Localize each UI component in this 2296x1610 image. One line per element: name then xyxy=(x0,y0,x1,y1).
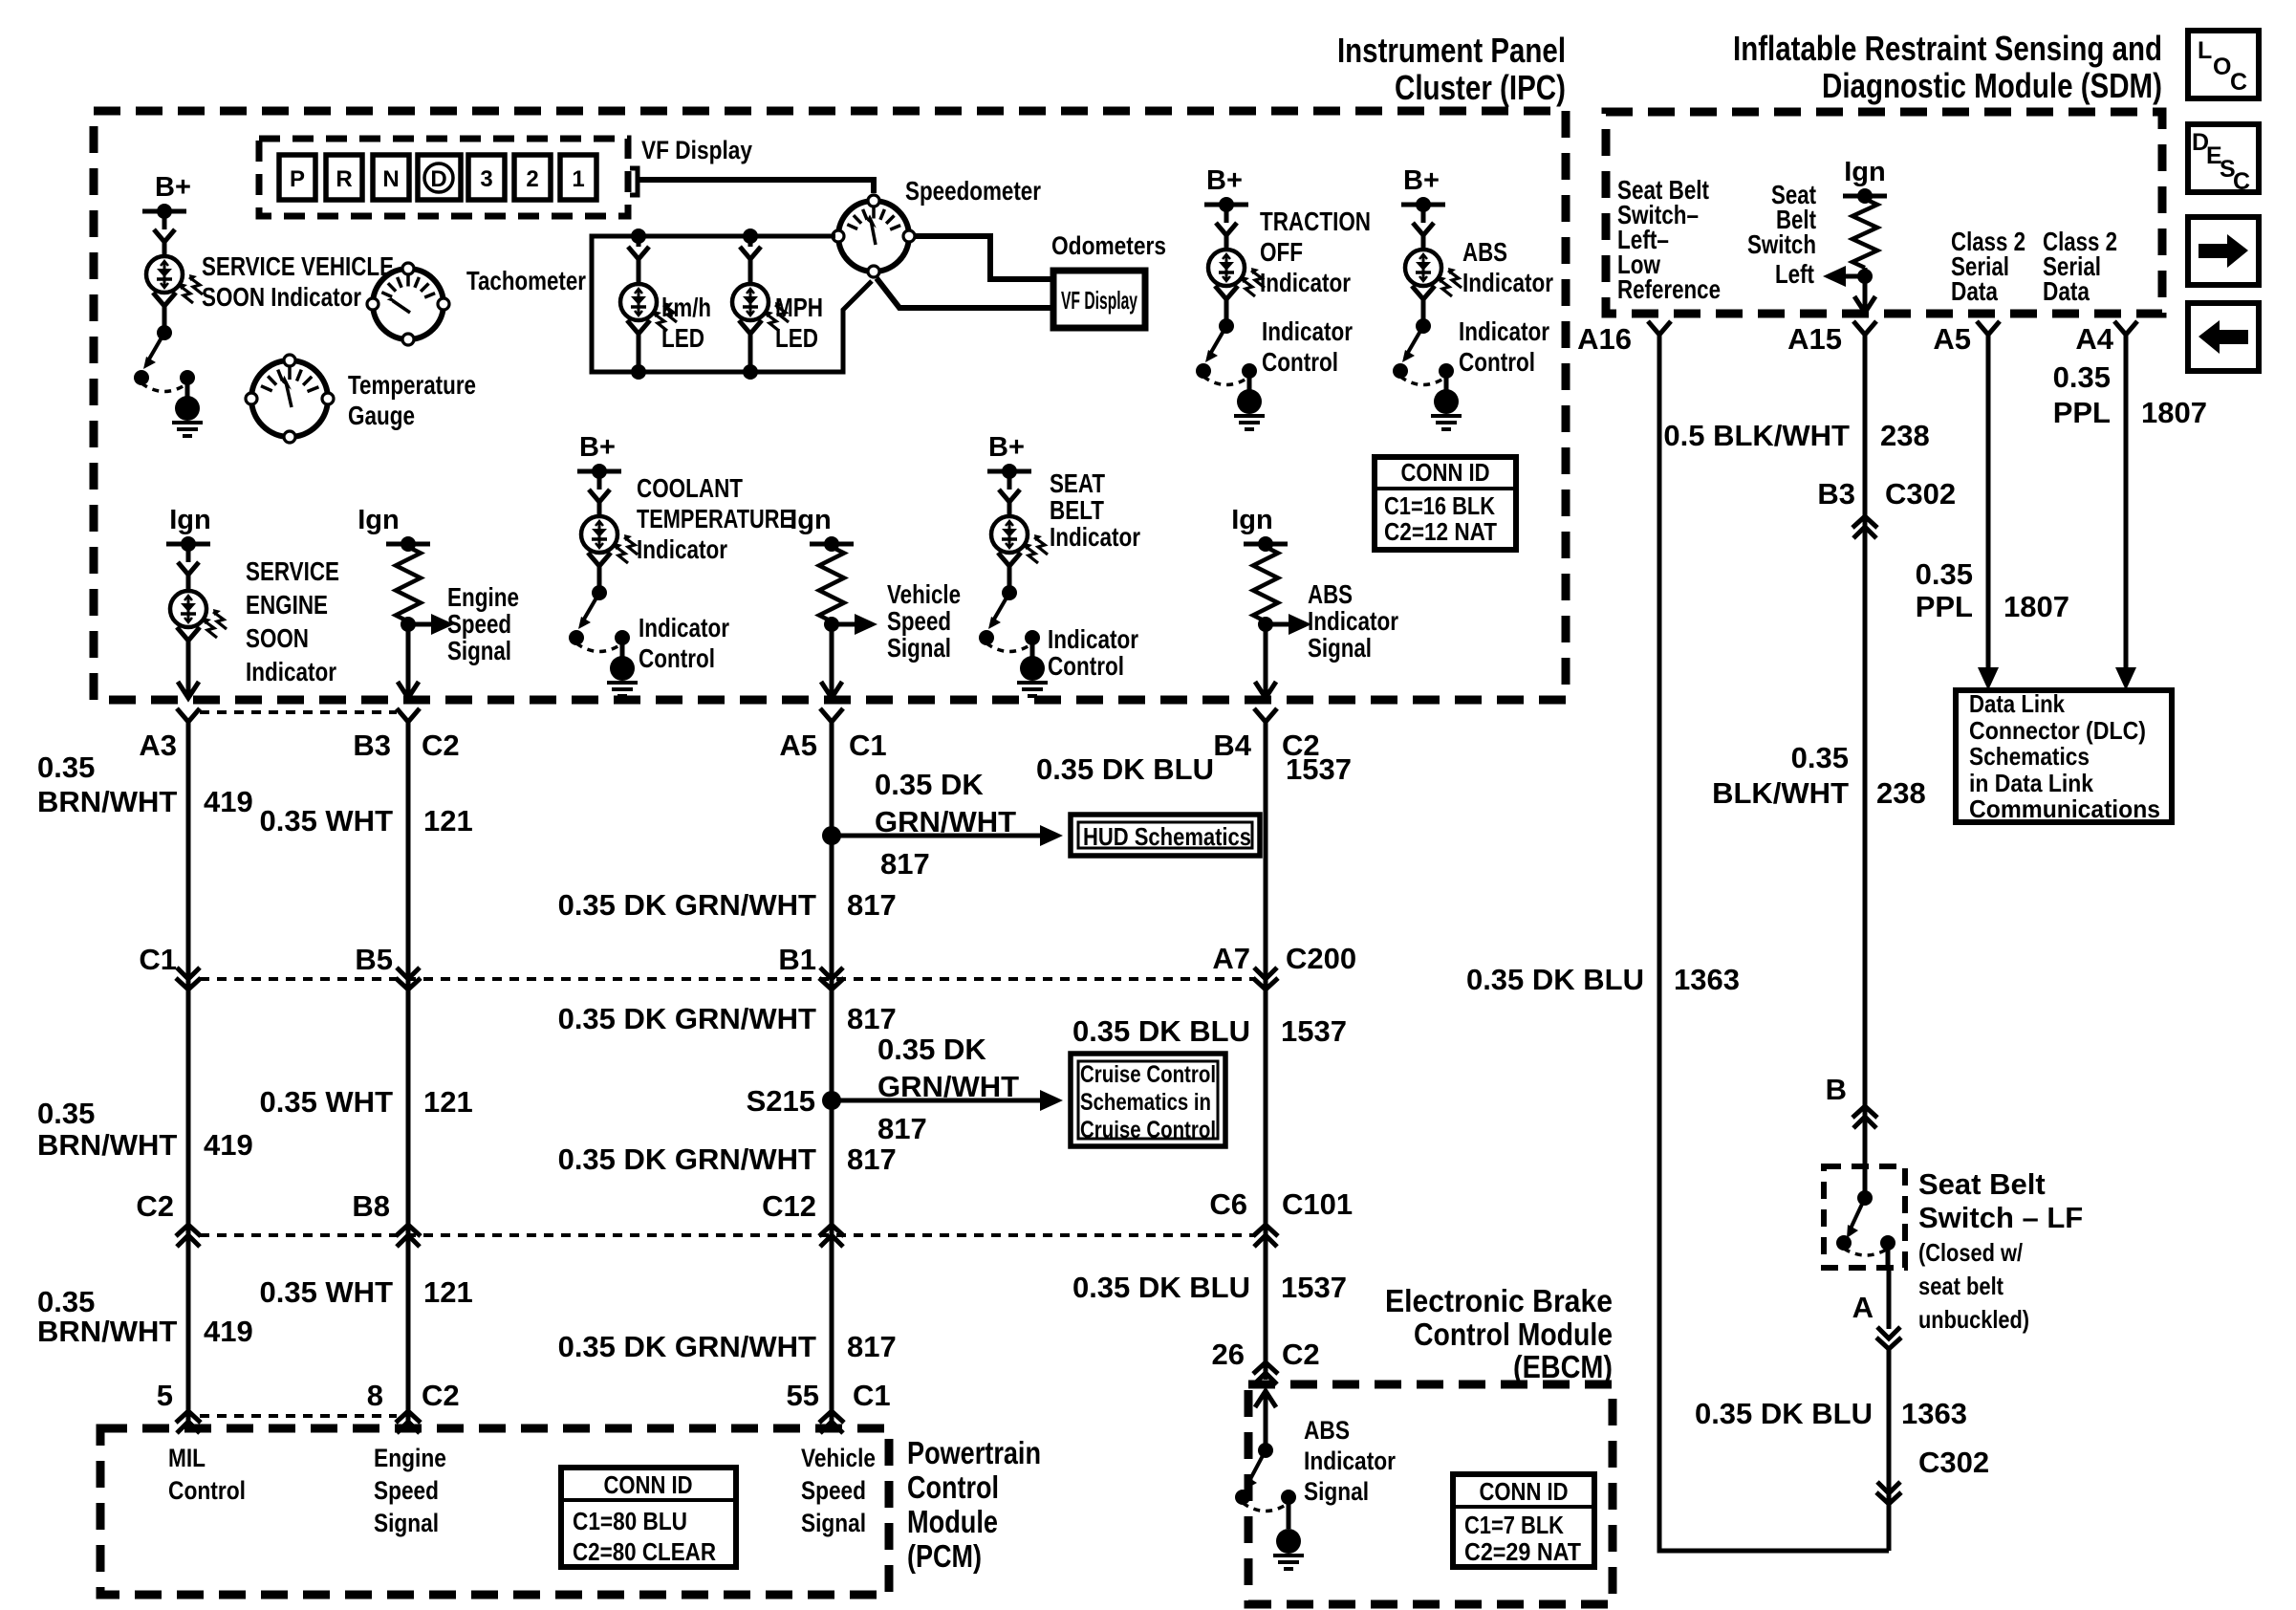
svg-text:C6: C6 xyxy=(1209,1187,1247,1221)
svg-text:Control: Control xyxy=(168,1476,246,1505)
svg-text:C2=29 NAT: C2=29 NAT xyxy=(1464,1537,1581,1566)
svg-text:Diagnostic Module (SDM): Diagnostic Module (SDM) xyxy=(1822,66,2162,105)
svg-text:817: 817 xyxy=(847,888,897,922)
svg-text:26: 26 xyxy=(1212,1338,1245,1371)
svg-text:Reference: Reference xyxy=(1617,274,1721,304)
svg-text:238: 238 xyxy=(1876,776,1926,810)
svg-text:GRN/WHT: GRN/WHT xyxy=(877,1070,1019,1103)
wire: vehicle speed to IPC border arrowhead xyxy=(821,682,842,698)
box: IPC CONN ID (C1=16 BLK / C2=12 NAT) xyxy=(1375,457,1516,550)
svg-text:Indicator: Indicator xyxy=(1304,1447,1396,1475)
svg-text:B+: B+ xyxy=(1403,165,1440,196)
svg-text:B3: B3 xyxy=(353,729,391,762)
svg-text:Indicator: Indicator xyxy=(1308,606,1398,636)
svg-text:MPH: MPH xyxy=(775,293,823,322)
connector: SDM pin A16 xyxy=(1648,321,1671,335)
svg-text:C1: C1 xyxy=(849,729,887,762)
switch: COOLANT TEMPERATURE indicator control with ground xyxy=(592,585,607,600)
svg-text:Signal: Signal xyxy=(1308,633,1372,663)
svg-text:121: 121 xyxy=(423,1275,473,1309)
indicator: MPH LED xyxy=(748,236,753,247)
svg-text:B: B xyxy=(1826,1073,1847,1106)
svg-text:0.35 DK BLU: 0.35 DK BLU xyxy=(1466,963,1644,996)
arrow: ABS Indicator Signal xyxy=(1266,622,1292,627)
svg-text:unbuckled): unbuckled) xyxy=(1918,1305,2029,1334)
svg-text:Engine: Engine xyxy=(374,1444,446,1472)
wire: IPC B3 to PCM 8 (0.35 WHT 121) xyxy=(406,737,411,1424)
svg-text:0.35 DK BLU: 0.35 DK BLU xyxy=(1072,1014,1250,1048)
svg-text:TEMPERATURE: TEMPERATURE xyxy=(637,504,793,533)
svg-text:C: C xyxy=(2230,69,2247,96)
svg-text:0.35 DK: 0.35 DK xyxy=(875,768,984,801)
svg-text:P: P xyxy=(290,166,305,192)
svg-text:0.35: 0.35 xyxy=(2053,360,2111,394)
component: Odometers VF Display box xyxy=(1053,271,1145,328)
svg-text:SERVICE: SERVICE xyxy=(246,556,339,586)
svg-text:0.35 WHT: 0.35 WHT xyxy=(259,1085,393,1119)
wire: IPC B4 to EBCM 26 (0.35 DK BLU 1537) xyxy=(1264,737,1268,1380)
connector: IPC C1 pin A5 (wire 817) xyxy=(820,708,843,722)
svg-text:L: L xyxy=(2198,37,2212,64)
svg-text:B8: B8 xyxy=(352,1189,390,1223)
component: Seat Belt Switch - LF dashed box xyxy=(1824,1166,1905,1268)
svg-text:GRN/WHT: GRN/WHT xyxy=(875,805,1016,838)
indicator: TRACTION OFF xyxy=(1224,205,1229,223)
svg-text:A: A xyxy=(1852,1291,1874,1324)
svg-text:Left: Left xyxy=(1775,259,1814,289)
svg-text:Speedometer: Speedometer xyxy=(905,176,1041,206)
svg-text:ABS: ABS xyxy=(1462,237,1507,267)
svg-text:Signal: Signal xyxy=(887,633,951,663)
svg-text:Indicator: Indicator xyxy=(1462,268,1553,297)
gauge: Tachometer xyxy=(373,269,444,339)
svg-text:C302: C302 xyxy=(1885,477,1956,511)
svg-text:SEAT: SEAT xyxy=(1050,468,1105,498)
svg-text:Control: Control xyxy=(907,1469,999,1505)
box: Data Link Connector (DLC) Schematics reference xyxy=(1956,690,2172,822)
svg-text:817: 817 xyxy=(847,1330,897,1363)
svg-text:C1: C1 xyxy=(139,943,177,976)
svg-text:1537: 1537 xyxy=(1286,752,1352,786)
svg-text:Indicator: Indicator xyxy=(1050,522,1140,552)
svg-text:B5: B5 xyxy=(355,943,393,976)
svg-text:N: N xyxy=(382,166,399,192)
svg-text:COOLANT: COOLANT xyxy=(637,473,743,503)
svg-text:TRACTION: TRACTION xyxy=(1260,207,1371,236)
gauge: Temperature Gauge xyxy=(251,360,328,437)
icon: back arrow legend box xyxy=(2188,303,2259,371)
junction: splice S215 xyxy=(822,1091,841,1110)
svg-text:C302: C302 xyxy=(1918,1446,1989,1479)
svg-text:Signal: Signal xyxy=(1304,1477,1369,1506)
svg-text:Seat Belt: Seat Belt xyxy=(1918,1167,2046,1201)
svg-text:CONN ID: CONN ID xyxy=(1480,1477,1569,1506)
svg-text:OFF: OFF xyxy=(1260,237,1303,267)
svg-text:A15: A15 xyxy=(1787,322,1842,356)
svg-text:Control: Control xyxy=(1048,651,1124,681)
component: gear selector VF Display (PRND321) dashed box xyxy=(259,139,628,216)
svg-text:5: 5 xyxy=(157,1379,173,1412)
wire: SDM A4 to DLC (0.35 PPL 1807) xyxy=(2124,350,2129,669)
svg-text:Speed: Speed xyxy=(887,606,951,636)
svg-text:B+: B+ xyxy=(1206,165,1243,196)
junction: engine speed signal tap xyxy=(406,621,411,697)
svg-text:0.35: 0.35 xyxy=(1791,741,1849,774)
wire: speedometer to odometers VF Display (upper) xyxy=(915,236,1051,279)
svg-text:A5: A5 xyxy=(779,729,817,762)
svg-text:ENGINE: ENGINE xyxy=(246,590,328,620)
connector: SDM pin A15 xyxy=(1853,321,1876,335)
wire: IPC A3 to PCM 5 (0.35 BRN/WHT 419) xyxy=(186,737,191,1424)
svg-text:VF Display: VF Display xyxy=(1061,286,1137,315)
svg-text:Schematics: Schematics xyxy=(1969,742,2090,771)
svg-text:C12: C12 xyxy=(762,1189,816,1223)
svg-text:CONN ID: CONN ID xyxy=(1401,458,1490,487)
box: Cruise Control Schematics reference xyxy=(1071,1054,1225,1146)
svg-text:A7: A7 xyxy=(1212,942,1250,975)
indicator: km/h LED xyxy=(637,236,641,247)
svg-text:0.35 DK: 0.35 DK xyxy=(877,1033,986,1066)
svg-text:0.35 DK GRN/WHT: 0.35 DK GRN/WHT xyxy=(558,1142,816,1176)
svg-text:Data Link: Data Link xyxy=(1969,689,2065,718)
svg-text:3: 3 xyxy=(480,166,492,192)
svg-text:C2=80 CLEAR: C2=80 CLEAR xyxy=(573,1537,716,1566)
svg-text:C1: C1 xyxy=(853,1379,891,1412)
arrow: Engine Speed Signal xyxy=(408,622,435,627)
svg-text:Signal: Signal xyxy=(374,1509,439,1537)
switch: ABS indicator signal (EBCM) with ground xyxy=(1258,1443,1273,1458)
svg-text:1: 1 xyxy=(572,166,584,192)
svg-text:Speed: Speed xyxy=(801,1476,866,1505)
svg-text:Control: Control xyxy=(639,643,715,673)
connector line: PCM C2 (dashed) xyxy=(200,1414,397,1418)
wire: speedometer to odometers VF Display (lower diagonal) xyxy=(877,278,1051,308)
svg-text:Control: Control xyxy=(1262,347,1338,377)
switch: SERVICE VEHICLE SOON indicator control with ground xyxy=(157,325,172,340)
svg-text:1537: 1537 xyxy=(1281,1271,1347,1304)
svg-text:Data: Data xyxy=(1951,276,1998,306)
svg-text:(EBCM): (EBCM) xyxy=(1513,1349,1613,1384)
svg-text:A5: A5 xyxy=(1933,322,1971,356)
svg-text:121: 121 xyxy=(423,804,473,838)
svg-text:Switch: Switch xyxy=(1747,229,1816,259)
svg-text:1363: 1363 xyxy=(1901,1397,1967,1430)
svg-text:55: 55 xyxy=(787,1379,819,1412)
svg-text:seat belt: seat belt xyxy=(1918,1272,2004,1300)
svg-text:Cruise Control: Cruise Control xyxy=(1080,1061,1216,1088)
svg-text:0.5 BLK/WHT: 0.5 BLK/WHT xyxy=(1663,419,1850,452)
wire: IPC A5 to PCM 55 (0.35 DK GRN/WHT 817) xyxy=(830,737,834,1424)
svg-text:817: 817 xyxy=(847,1002,897,1035)
wire: seat belt switch to C302 (0.35 DK BLU 1363) xyxy=(1887,1348,1892,1551)
svg-text:A4: A4 xyxy=(2075,322,2113,356)
svg-text:SOON: SOON xyxy=(246,623,309,653)
junction: MPH LED top xyxy=(743,228,758,244)
svg-text:in Data Link: in Data Link xyxy=(1969,769,2093,797)
resistor: SDM seat belt switch pull-up xyxy=(1852,199,1877,268)
svg-text:Communications: Communications xyxy=(1969,794,2160,823)
indicator: SERVICE VEHICLE SOON xyxy=(162,211,167,229)
svg-text:R: R xyxy=(336,166,352,192)
ground: EBCM ABS indicator signal xyxy=(1276,1529,1301,1554)
svg-text:0.35 WHT: 0.35 WHT xyxy=(259,1275,393,1309)
svg-text:Signal: Signal xyxy=(801,1509,866,1537)
svg-text:Electronic Brake: Electronic Brake xyxy=(1385,1283,1613,1318)
connector: SDM pin A5 xyxy=(1977,321,2000,335)
svg-text:Tachometer: Tachometer xyxy=(466,266,586,295)
svg-text:MIL: MIL xyxy=(168,1444,206,1472)
module box: Instrument Panel Cluster (IPC) dashed outline xyxy=(94,111,1566,700)
svg-text:1537: 1537 xyxy=(1281,1014,1347,1048)
svg-text:0.35: 0.35 xyxy=(37,751,95,784)
svg-text:BRN/WHT: BRN/WHT xyxy=(37,1315,177,1348)
wire: engine speed to IPC border arrowhead xyxy=(398,682,419,698)
svg-text:C2: C2 xyxy=(1282,1338,1320,1371)
connector: IPC C1 pin A3 (wire 419) xyxy=(177,708,200,722)
connector: IPC C2 pin B4 (wire 1537) xyxy=(1254,708,1277,722)
svg-text:Indicator: Indicator xyxy=(246,657,336,686)
svg-text:Schematics in: Schematics in xyxy=(1080,1089,1211,1116)
svg-text:B4: B4 xyxy=(1213,729,1251,762)
icon: forward arrow legend box xyxy=(2188,217,2259,285)
svg-text:C101: C101 xyxy=(1282,1187,1353,1221)
svg-text:419: 419 xyxy=(204,1315,253,1348)
svg-text:SOON Indicator: SOON Indicator xyxy=(202,282,361,312)
svg-text:Ign: Ign xyxy=(169,505,211,535)
svg-text:CONN ID: CONN ID xyxy=(604,1470,693,1499)
indicator: ABS xyxy=(1421,205,1426,223)
connector: SDM pin A4 xyxy=(2114,321,2137,335)
svg-text:Control Module: Control Module xyxy=(1414,1316,1613,1352)
wire: EBCM ABS indicator signal entry xyxy=(1255,1391,1276,1407)
svg-text:Vehicle: Vehicle xyxy=(801,1444,876,1472)
junction: HUD schematics tap xyxy=(822,826,841,845)
svg-text:km/h: km/h xyxy=(661,293,711,322)
icon: DESC legend box xyxy=(2188,124,2259,192)
svg-text:ABS: ABS xyxy=(1304,1416,1350,1445)
svg-text:B+: B+ xyxy=(579,432,616,463)
wire: SDM A5 to DLC (0.35 PPL 1807) xyxy=(1986,350,1991,669)
svg-text:ABS: ABS xyxy=(1308,579,1353,609)
svg-text:Indicator: Indicator xyxy=(637,534,727,564)
svg-text:0.35 WHT: 0.35 WHT xyxy=(259,804,393,838)
svg-text:C200: C200 xyxy=(1286,942,1356,975)
svg-text:0.35 DK BLU: 0.35 DK BLU xyxy=(1072,1271,1250,1304)
wire: LED supply bus from speedometer xyxy=(592,236,872,372)
svg-text:Indicator: Indicator xyxy=(1459,316,1549,346)
svg-text:B3: B3 xyxy=(1817,477,1855,511)
box: HUD Schematics reference xyxy=(1071,815,1260,856)
svg-text:238: 238 xyxy=(1880,419,1930,452)
svg-text:C2: C2 xyxy=(422,729,460,762)
svg-text:Ign: Ign xyxy=(1844,157,1886,187)
svg-text:0.35 DK GRN/WHT: 0.35 DK GRN/WHT xyxy=(558,1002,816,1035)
junction: MPH LED bottom xyxy=(743,364,758,380)
svg-text:Powertrain: Powertrain xyxy=(907,1435,1041,1470)
svg-text:A16: A16 xyxy=(1577,322,1632,356)
svg-text:C2: C2 xyxy=(136,1189,174,1223)
switch: TRACTION OFF indicator control with ground xyxy=(1219,318,1234,334)
wire: IPC connector dashed tie (A3 to B3) xyxy=(200,710,397,714)
svg-text:C1=7 BLK: C1=7 BLK xyxy=(1464,1511,1564,1539)
gauge: Speedometer xyxy=(838,201,909,272)
svg-text:Signal: Signal xyxy=(447,636,511,665)
wire: SERVICE ENGINE SOON to IPC border arrowhead xyxy=(178,682,199,698)
svg-text:Connector (DLC): Connector (DLC) xyxy=(1969,716,2146,745)
wire: ABS signal to IPC border arrowhead xyxy=(1255,682,1276,698)
svg-text:SERVICE VEHICLE: SERVICE VEHICLE xyxy=(202,251,394,281)
indicator: SERVICE ENGINE SOON xyxy=(186,544,191,562)
switch: ABS indicator control with ground xyxy=(1416,318,1431,334)
junction: vehicle speed signal tap xyxy=(830,621,834,697)
svg-text:C2=12 NAT: C2=12 NAT xyxy=(1384,517,1497,546)
svg-text:LED: LED xyxy=(775,323,818,353)
svg-text:Indicator: Indicator xyxy=(639,613,729,642)
svg-text:PPL: PPL xyxy=(1916,590,1973,623)
svg-text:BELT: BELT xyxy=(1050,495,1104,525)
wire: SDM A15 to seat belt switch (0.5 BLK/WHT 238) xyxy=(1863,350,1868,1166)
svg-text:C: C xyxy=(2233,168,2250,195)
svg-text:817: 817 xyxy=(880,847,930,881)
connector line: C200 (dashed) xyxy=(200,977,1254,981)
box: PCM CONN ID (C1=80 BLU / C2=80 CLEAR) xyxy=(561,1468,736,1567)
svg-text:C1=16 BLK: C1=16 BLK xyxy=(1384,491,1495,520)
svg-text:C1=80 BLU: C1=80 BLU xyxy=(573,1507,687,1535)
svg-text:Control: Control xyxy=(1459,347,1535,377)
svg-text:O: O xyxy=(2213,54,2231,80)
icon: LOC legend box xyxy=(2188,31,2259,98)
svg-text:Instrument Panel: Instrument Panel xyxy=(1337,31,1566,70)
module box: Inflatable Restraint Sensing and Diagnostic Module (SDM) dashed outline xyxy=(1606,112,2162,314)
indicator: SEAT BELT xyxy=(1007,471,1012,490)
svg-text:0.35 DK BLU: 0.35 DK BLU xyxy=(1036,752,1214,786)
svg-text:Temperature: Temperature xyxy=(348,370,476,400)
svg-text:Speed: Speed xyxy=(374,1476,439,1505)
svg-text:0.35 DK BLU: 0.35 DK BLU xyxy=(1695,1397,1873,1430)
svg-text:D: D xyxy=(430,166,446,192)
svg-text:A3: A3 xyxy=(139,729,177,762)
svg-text:Module: Module xyxy=(907,1504,998,1539)
svg-text:Vehicle: Vehicle xyxy=(887,579,961,609)
svg-text:Inflatable Restraint Sensing a: Inflatable Restraint Sensing and xyxy=(1733,29,2162,68)
svg-text:Ign: Ign xyxy=(790,505,832,535)
junction: km/h LED bottom xyxy=(631,364,646,380)
svg-text:1807: 1807 xyxy=(2004,590,2069,623)
svg-text:419: 419 xyxy=(204,785,253,818)
svg-text:VF Display: VF Display xyxy=(641,136,752,164)
svg-text:0.35: 0.35 xyxy=(1916,557,1973,591)
svg-text:Engine: Engine xyxy=(447,582,519,612)
svg-text:Indicator: Indicator xyxy=(1260,268,1351,297)
arrow: Vehicle Speed Signal xyxy=(832,622,858,627)
svg-text:S215: S215 xyxy=(747,1084,815,1118)
svg-text:PPL: PPL xyxy=(2053,396,2111,429)
svg-text:1363: 1363 xyxy=(1674,963,1740,996)
svg-text:Data: Data xyxy=(2043,276,2090,306)
svg-text:1807: 1807 xyxy=(2141,396,2207,429)
svg-text:B1: B1 xyxy=(778,943,816,976)
svg-text:BRN/WHT: BRN/WHT xyxy=(37,785,177,818)
svg-text:0.35 DK GRN/WHT: 0.35 DK GRN/WHT xyxy=(558,888,816,922)
svg-text:0.35 DK GRN/WHT: 0.35 DK GRN/WHT xyxy=(558,1330,816,1363)
switch: seat belt switch LF contacts xyxy=(1863,1166,1868,1198)
junction: SDM seat belt switch left node xyxy=(1863,268,1868,314)
svg-text:B+: B+ xyxy=(155,172,191,203)
svg-text:Odometers: Odometers xyxy=(1051,231,1166,260)
svg-text:(Closed w/: (Closed w/ xyxy=(1918,1238,2023,1267)
svg-text:2: 2 xyxy=(526,166,538,192)
svg-text:LED: LED xyxy=(661,323,704,353)
wire: SDM A16 seat belt low reference (0.35 DK BLU 1363) xyxy=(1659,350,1889,1551)
svg-text:HUD Schematics: HUD Schematics xyxy=(1083,822,1251,851)
svg-text:Gauge: Gauge xyxy=(348,401,415,430)
svg-text:Switch – LF: Switch – LF xyxy=(1918,1201,2083,1234)
svg-text:Indicator: Indicator xyxy=(1048,624,1138,654)
svg-text:121: 121 xyxy=(423,1085,473,1119)
module box: Powertrain Control Module (PCM) dashed outline xyxy=(100,1428,889,1595)
svg-text:BRN/WHT: BRN/WHT xyxy=(37,1128,177,1162)
junction: ABS indicator signal tap xyxy=(1264,621,1268,697)
wire: PRND box to speedometer xyxy=(630,168,638,195)
indicator: COOLANT TEMPERATURE xyxy=(597,471,602,490)
svg-text:817: 817 xyxy=(847,1142,897,1176)
switch: SEAT BELT indicator control with ground xyxy=(1002,585,1017,600)
svg-text:419: 419 xyxy=(204,1128,253,1162)
connector line: C101 (dashed) xyxy=(200,1233,1254,1237)
svg-text:Indicator: Indicator xyxy=(1262,316,1353,346)
svg-text:C2: C2 xyxy=(422,1379,460,1412)
svg-text:Speed: Speed xyxy=(447,609,511,639)
svg-text:Cluster (IPC): Cluster (IPC) xyxy=(1395,68,1566,107)
resistor: ABS indicator signal xyxy=(1253,547,1278,621)
junction: km/h LED top xyxy=(631,228,646,244)
module box: Electronic Brake Control Module (EBCM) dashed outline xyxy=(1248,1384,1613,1604)
box: EBCM CONN ID (C1=7 BLK / C2=29 NAT) xyxy=(1453,1474,1594,1567)
svg-text:BLK/WHT: BLK/WHT xyxy=(1712,776,1849,810)
svg-text:B+: B+ xyxy=(988,432,1025,463)
resistor: engine speed sender xyxy=(396,547,421,621)
resistor: vehicle speed sender xyxy=(819,547,844,621)
svg-text:(PCM): (PCM) xyxy=(907,1538,982,1574)
svg-text:Ign: Ign xyxy=(357,505,400,535)
svg-text:Ign: Ign xyxy=(1231,505,1273,535)
svg-text:Cruise Control: Cruise Control xyxy=(1080,1117,1216,1143)
connector: IPC C2 pin B3 (wire 121) xyxy=(397,708,420,722)
svg-text:817: 817 xyxy=(877,1112,927,1145)
svg-text:0.35: 0.35 xyxy=(37,1285,95,1318)
svg-text:0.35: 0.35 xyxy=(37,1097,95,1130)
svg-text:8: 8 xyxy=(367,1379,383,1412)
